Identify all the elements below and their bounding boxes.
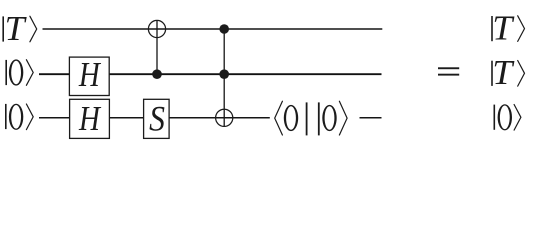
svg-text:T: T xyxy=(492,54,514,92)
gate H on q2 xyxy=(70,99,110,138)
gate S on q2 xyxy=(144,99,170,139)
CNOT control dot on q1 xyxy=(152,69,162,79)
wire q0 (top) xyxy=(43,28,383,30)
CNOT control q1 -> target q0 : vertical link xyxy=(156,20,158,74)
svg-text:T: T xyxy=(5,9,27,47)
svg-text:T: T xyxy=(492,9,514,47)
output ket |T> q0 xyxy=(492,9,525,47)
CNOT target circle on q0 xyxy=(148,20,165,37)
reset ket |0> on q2 xyxy=(319,101,347,135)
wire q1 (middle) xyxy=(39,73,382,75)
Toffoli control dot on q1 xyxy=(219,69,229,79)
equals sign xyxy=(438,67,459,75)
Toffoli control dot on q0 xyxy=(219,24,229,34)
output ket |0> q2 xyxy=(494,104,521,130)
Toffoli target circle on q2 xyxy=(216,109,233,126)
wire q2 (bottom, left segment) xyxy=(39,117,270,119)
svg-text:H: H xyxy=(78,56,102,94)
gate H on q1 xyxy=(69,56,109,96)
ket |0> input label q1 xyxy=(6,59,33,85)
ket |T> input label q0 xyxy=(3,9,37,47)
ket |0> input label q2 xyxy=(6,104,33,130)
Toffoli vertical link xyxy=(223,29,225,127)
svg-text:H: H xyxy=(78,100,102,138)
measurement bra <0| on q2 xyxy=(275,101,307,135)
wire q2 (bottom, right stub after measurement) xyxy=(360,117,382,119)
svg-text:S: S xyxy=(149,100,165,139)
output ket |T> q1 xyxy=(492,54,525,92)
